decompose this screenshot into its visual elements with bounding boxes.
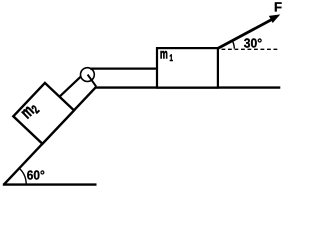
ground line — [96, 86, 280, 88]
30 degree arc — [232, 40, 234, 48]
label 30 degrees — [244, 36, 262, 51]
block m2 — [13, 83, 74, 144]
60 degree arc — [19, 168, 26, 184]
rope m2 to pulley — [60, 76, 82, 97]
rope pulley to m1 — [90, 67, 158, 69]
base line — [3, 183, 97, 185]
svg-text:F: F — [274, 0, 282, 15]
pulley — [81, 68, 95, 82]
label F — [274, 0, 282, 15]
svg-text:30°: 30° — [244, 36, 262, 51]
pulley strut — [88, 75, 97, 87]
label 60 degrees — [27, 167, 45, 182]
force F arrow shaft — [218, 19, 273, 48]
dashed horizontal reference — [222, 48, 281, 50]
svg-text:60°: 60° — [27, 167, 45, 182]
block m1 — [157, 48, 218, 88]
incline surface — [4, 87, 96, 184]
label m1 — [160, 46, 173, 64]
force F arrowhead — [270, 15, 279, 22]
label m2 (rotated) — [16, 97, 42, 123]
